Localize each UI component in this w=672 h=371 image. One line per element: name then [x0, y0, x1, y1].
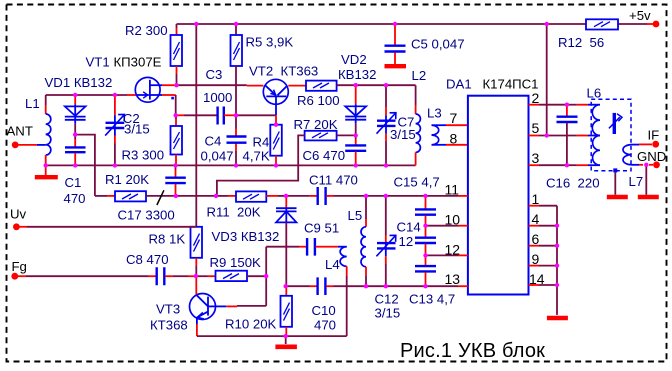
wire pin9 — [529, 265, 558, 267]
C17 feedthrough slash — [157, 190, 164, 205]
svg-text:R2 300: R2 300 — [125, 23, 168, 38]
svg-text:9: 9 — [532, 251, 540, 267]
wire x196 bus-to-R8 — [195, 24, 197, 227]
node C16 bottom — [565, 163, 569, 167]
node C12 bottom — [384, 284, 388, 288]
svg-text:C14: C14 — [397, 220, 421, 235]
resistor R10 — [225, 286, 292, 336]
svg-text:C1: C1 — [65, 175, 82, 190]
wire pin2 to L6 top — [529, 104, 601, 106]
node R7-VD2 — [354, 133, 358, 137]
inductor L6 (shielded, tuned) — [587, 86, 632, 171]
inductor L3 — [416, 85, 442, 165]
capacitor C11 — [286, 173, 366, 206]
transistor VT2 — [247, 64, 318, 125]
resistor R12 — [558, 19, 618, 50]
svg-text:C10: C10 — [312, 303, 336, 318]
capacitor C10 — [312, 277, 367, 332]
node pin5 supply — [545, 133, 549, 137]
ground under GND node — [638, 165, 659, 197]
svg-text:R4: R4 — [253, 135, 270, 150]
node L5 top — [364, 194, 368, 198]
svg-text:R12 56: R12 56 — [558, 35, 604, 50]
node R9 right — [264, 274, 268, 278]
node R7 branch — [214, 194, 218, 198]
node Fg — [11, 259, 26, 280]
node L7 gnd — [644, 163, 648, 167]
svg-text:2: 2 — [532, 90, 540, 106]
resistor R6 — [297, 81, 340, 108]
wire pin11 line R1 node to R11 — [176, 195, 236, 197]
node C3 left — [174, 113, 178, 117]
wire R12 to +5v terminal — [618, 23, 647, 25]
svg-text:GND: GND — [637, 149, 666, 164]
svg-text:470: 470 — [64, 191, 86, 206]
node C13 bottom — [423, 284, 427, 288]
capacitor C12 (trimmer) — [375, 196, 401, 321]
svg-text:1000: 1000 — [203, 90, 232, 105]
wire R9 node vertical x266 — [265, 247, 267, 306]
node R3-C17 — [173, 163, 177, 167]
node bus-R2col — [194, 22, 198, 26]
capacitor C15 — [394, 175, 440, 226]
svg-text:L5: L5 — [348, 208, 363, 223]
ground under VT3 emitter line — [275, 336, 297, 347]
resistor R9 — [196, 255, 266, 281]
wire Uv line — [19, 226, 196, 228]
diode VD2 — [338, 52, 376, 135]
wire pin6 — [529, 245, 558, 247]
svg-text:C9 51: C9 51 — [304, 221, 339, 236]
inductor L7 — [623, 145, 643, 189]
svg-text:14: 14 — [529, 271, 545, 287]
inductor L3 secondary — [432, 125, 447, 145]
node gnd bus pin4 — [555, 224, 559, 228]
node C4 bottom — [234, 163, 238, 167]
wire pin4 — [529, 225, 558, 227]
node gnd bus pin6 — [555, 244, 559, 248]
resistor R7 — [217, 117, 356, 196]
capacitor C8 — [126, 252, 196, 285]
svg-text:3/15: 3/15 — [375, 306, 401, 321]
svg-text:11: 11 — [445, 182, 460, 198]
svg-text:1: 1 — [532, 191, 540, 207]
node R4 bottom — [274, 163, 278, 167]
wire R6 to VD2 top — [337, 84, 356, 86]
ground stub under L6 box — [607, 168, 628, 197]
wire pin3 to L6 bottom — [529, 164, 601, 166]
node VT1 substrate mark — [171, 97, 174, 100]
svg-text:КВ132: КВ132 — [338, 67, 376, 82]
wire pin13 line / C10 line — [286, 285, 317, 287]
svg-text:R7 20K: R7 20K — [294, 117, 338, 132]
svg-text:VD3 КВ132: VD3 КВ132 — [212, 229, 280, 244]
svg-text:C13 4,7: C13 4,7 — [409, 292, 455, 307]
node C3 right — [234, 113, 238, 117]
resistor R8 — [149, 227, 203, 276]
capacitor C3 — [176, 67, 236, 125]
node +5v — [629, 8, 659, 27]
svg-text:C3: C3 — [206, 67, 223, 82]
node R8 bottom — [194, 274, 198, 278]
svg-text:12: 12 — [445, 242, 461, 258]
node R10 bottom — [284, 334, 288, 338]
wire emitter node to L4 bottom — [286, 335, 347, 337]
node C16 top — [565, 103, 569, 107]
node VD1 top — [73, 93, 77, 97]
node pin10 — [423, 224, 427, 228]
svg-text:C11 470: C11 470 — [309, 173, 358, 188]
capacitor C4 — [201, 134, 247, 164]
svg-text:L3: L3 — [427, 106, 442, 121]
svg-text:13: 13 — [445, 271, 461, 287]
svg-text:C17 3300: C17 3300 — [118, 208, 175, 223]
wire pin7 — [446, 124, 468, 126]
svg-text:L7: L7 — [629, 174, 644, 189]
wire ANT tap — [37, 144, 46, 146]
wire pin10 — [426, 225, 468, 227]
svg-text:VT3: VT3 — [156, 302, 180, 317]
svg-text:R9 150K: R9 150K — [210, 255, 262, 270]
svg-text:+5v: +5v — [629, 8, 651, 23]
node C7 top — [384, 83, 388, 87]
wire L7 to GND — [639, 164, 653, 166]
node bus-pin5 — [545, 22, 549, 26]
inductor L5 — [348, 196, 367, 286]
wire VT1 source down to C3 node — [162, 94, 176, 96]
wire pin12 — [426, 254, 468, 256]
resistor R4 — [243, 125, 282, 166]
wire pin5 to L6 tap — [529, 135, 601, 137]
wire L7 to IF — [639, 143, 652, 145]
svg-text:DA1: DA1 — [446, 77, 472, 92]
capacitor C5 — [385, 24, 465, 83]
svg-text:10: 10 — [445, 212, 461, 228]
svg-text:R6 100: R6 100 — [297, 93, 340, 108]
node L1 bottom — [44, 163, 48, 167]
op-amp U1 / IC DA1 — [446, 77, 539, 295]
svg-text:R8 1K: R8 1K — [149, 232, 186, 247]
capacitor C14 — [397, 220, 437, 256]
node gnd bus pin14 — [555, 283, 559, 287]
wire pin1 to ground bus — [529, 205, 558, 207]
node bus-C5 — [393, 22, 397, 26]
svg-text:Uv: Uv — [10, 207, 27, 222]
wire VD1 node to R1 — [75, 135, 95, 196]
node C6 bottom — [354, 163, 358, 167]
node C2 bottom — [113, 163, 117, 167]
svg-text:4: 4 — [532, 211, 540, 227]
svg-text:C12: C12 — [375, 292, 399, 307]
svg-text:C6 470: C6 470 — [303, 148, 346, 163]
diode VD3 — [212, 196, 297, 286]
wire y85 VD2-C7-L3 — [356, 84, 416, 86]
diode VD1 — [45, 75, 113, 135]
svg-text:0,047: 0,047 — [201, 149, 234, 164]
svg-text:R1 20K: R1 20K — [105, 172, 149, 187]
svg-text:C16 220: C16 220 — [546, 176, 600, 191]
wire pin8 — [446, 144, 468, 146]
svg-text:К174ПС1: К174ПС1 — [483, 77, 539, 92]
wire +5v branch to pin5 — [546, 24, 548, 136]
svg-text:VD2: VD2 — [341, 52, 367, 67]
wire VT3 collector — [216, 305, 267, 308]
svg-text:C15 4,7: C15 4,7 — [394, 175, 440, 190]
ground under C5 — [385, 64, 407, 68]
wire pin13 line right — [366, 285, 468, 287]
svg-text:C5 0,047: C5 0,047 — [411, 37, 465, 52]
node Uv — [10, 207, 27, 231]
ground under IC bus — [547, 316, 568, 321]
wire R5 down through C4 node to wire A — [235, 66, 237, 129]
svg-text:L4: L4 — [325, 257, 340, 272]
node VD2 top — [354, 83, 358, 87]
node C7 bottom — [384, 163, 388, 167]
svg-text:VT1: VT1 — [86, 55, 110, 70]
wire y95 tank top — [46, 94, 127, 96]
node C15 top — [423, 194, 427, 198]
svg-text:L2: L2 — [412, 68, 427, 83]
svg-text:ANT: ANT — [7, 124, 33, 139]
wire y85 drain bus to VT2 — [177, 84, 247, 86]
svg-text:R10 20K: R10 20K — [225, 317, 277, 332]
transistor VT3 — [150, 276, 216, 336]
resistor R11 — [207, 191, 287, 219]
svg-text:470: 470 — [314, 318, 336, 333]
wire A (tank bottom bus y=165) — [46, 164, 416, 166]
svg-text:3/15: 3/15 — [390, 127, 416, 142]
inductor L1 — [25, 95, 51, 165]
capacitor C16 — [546, 105, 600, 191]
svg-text:L6: L6 — [587, 86, 602, 101]
node L5 bottom — [364, 284, 368, 288]
node VD1 bottom — [73, 132, 77, 136]
svg-text:R5 3,9K: R5 3,9K — [246, 35, 294, 50]
transistor VT1 — [86, 55, 163, 103]
wire ground bus x557 — [556, 206, 558, 315]
capacitor C17 — [118, 165, 186, 222]
resistor R1 — [95, 172, 176, 201]
node R4 top — [274, 123, 278, 127]
svg-text:7: 7 — [450, 110, 458, 126]
svg-text:Fg: Fg — [12, 259, 27, 274]
node pin12 — [423, 253, 427, 257]
wire pin11 line right — [366, 195, 468, 197]
svg-text:C4: C4 — [205, 134, 222, 149]
svg-text:R3 300: R3 300 — [122, 148, 165, 163]
node IF — [648, 128, 660, 148]
node R10 top — [284, 284, 288, 288]
svg-text:12: 12 — [399, 234, 414, 249]
svg-text:3/15: 3/15 — [124, 122, 150, 137]
node bus-R5col — [234, 22, 238, 26]
svg-text:4,7K: 4,7K — [243, 149, 270, 164]
svg-text:КТ368: КТ368 — [150, 318, 188, 333]
wire VT1 gate to tank — [127, 94, 135, 96]
node C2 top — [113, 93, 117, 97]
node VT1 drain — [174, 83, 178, 87]
wire C4 node to VT2 base — [236, 114, 276, 116]
resistor R5 — [231, 24, 294, 66]
capacitor C1 — [64, 135, 86, 206]
node C1 bottom — [73, 163, 77, 167]
svg-text:VD1 КВ132: VD1 КВ132 — [45, 75, 113, 90]
svg-text:КП307Е: КП307Е — [114, 55, 162, 70]
capacitor C13 — [409, 255, 455, 306]
resistor R3 — [122, 115, 183, 165]
wire pin14 — [529, 284, 558, 286]
resistor R2 — [125, 23, 182, 85]
wire Fg line — [18, 275, 156, 277]
node GND — [637, 149, 666, 168]
svg-text:6: 6 — [532, 231, 540, 247]
svg-text:5: 5 — [532, 120, 540, 136]
node gnd bus pin9 — [555, 263, 559, 267]
node ANT — [7, 124, 33, 149]
wire y246.7 to C9 — [266, 246, 306, 248]
svg-text:3: 3 — [532, 150, 540, 166]
capacitor C2 (trimmer) — [105, 95, 149, 165]
inductor L4 — [325, 247, 347, 336]
svg-text:VT2 КТ363: VT2 КТ363 — [249, 64, 318, 79]
svg-text:C8 470: C8 470 — [126, 252, 169, 267]
node C12 top — [384, 194, 388, 198]
svg-text:L1: L1 — [25, 96, 40, 111]
wire VT1 drain to R2 node — [162, 84, 177, 86]
capacitor C6 — [303, 135, 367, 165]
svg-text:Рис.1 УКВ блок: Рис.1 УКВ блок — [400, 340, 545, 362]
node C17-C4col — [174, 194, 178, 198]
ground under L1 — [35, 165, 58, 177]
svg-text:R11 20K: R11 20K — [207, 205, 261, 220]
wire VT3 emitter to ground node — [197, 335, 286, 337]
wire +5v top bus — [177, 23, 587, 25]
svg-text:8: 8 — [450, 131, 458, 147]
svg-text:IF: IF — [648, 128, 660, 143]
capacitor C9 — [304, 221, 347, 256]
capacitor C7 (trimmer) — [377, 85, 416, 165]
node VD3 top — [284, 194, 288, 198]
